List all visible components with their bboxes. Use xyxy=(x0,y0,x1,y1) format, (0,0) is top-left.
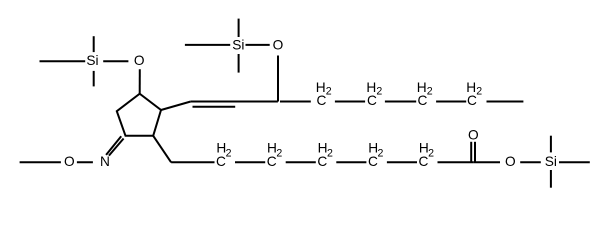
bond Si2-O3 xyxy=(246,44,270,46)
TMS1 methyl left xyxy=(40,60,86,62)
svg-text:Si: Si xyxy=(545,154,557,169)
C=N double bond line2 xyxy=(109,139,124,156)
svg-text:2: 2 xyxy=(378,147,384,159)
TMS2 methyl left xyxy=(185,44,230,46)
svg-text:C: C xyxy=(216,154,226,169)
svg-text:C: C xyxy=(368,154,378,169)
TMS2 methyl bottom xyxy=(238,54,240,73)
TMS2 methyl top xyxy=(238,19,240,37)
vinyl main line + chain to C15 xyxy=(191,101,278,103)
svg-text:C: C xyxy=(419,154,429,169)
svg-text:H: H xyxy=(366,80,376,95)
bond N-O2 xyxy=(77,161,93,163)
bond C17-C18 xyxy=(385,101,416,103)
svg-text:2: 2 xyxy=(476,86,482,98)
svg-text:Si: Si xyxy=(86,53,98,68)
TMS3 methyl top xyxy=(550,136,552,153)
svg-text:2: 2 xyxy=(276,147,282,159)
svg-text:2: 2 xyxy=(427,86,433,98)
bond C7-C6 xyxy=(171,161,214,163)
svg-text:2: 2 xyxy=(326,86,332,98)
svg-text:O: O xyxy=(468,127,479,142)
svg-text:Si: Si xyxy=(232,37,244,52)
TMS3 methyl bottom xyxy=(550,170,552,188)
bond C18-C19 xyxy=(436,101,466,103)
svg-text:H: H xyxy=(466,80,476,95)
bond C15-C16 xyxy=(280,101,311,103)
TMS3 methyl right xyxy=(559,161,590,163)
bond O5-Si3 xyxy=(520,161,541,163)
bond C3-C2 xyxy=(387,161,417,163)
bond C16-C17 xyxy=(335,101,365,103)
bond Si1-O1 xyxy=(103,60,128,62)
cyclopentane ring xyxy=(117,94,161,136)
svg-text:H: H xyxy=(417,80,427,95)
vinyl double bond inner line xyxy=(193,106,236,108)
bond C5-C4 xyxy=(286,161,316,163)
svg-text:O: O xyxy=(505,154,516,169)
svg-text:2: 2 xyxy=(327,147,333,159)
bond C4-C3 xyxy=(336,161,366,163)
TMS1 methyl bottom xyxy=(93,71,95,87)
C20 terminal methyl xyxy=(487,101,524,103)
bond ring-vinyl xyxy=(161,102,191,111)
O2 methyl xyxy=(20,161,61,163)
svg-text:H: H xyxy=(316,80,326,95)
svg-text:O: O xyxy=(134,53,145,68)
TMS1 methyl top xyxy=(93,36,95,52)
svg-text:C: C xyxy=(317,154,327,169)
svg-text:O: O xyxy=(64,154,75,169)
bond C1-O5 xyxy=(473,161,500,163)
svg-text:2: 2 xyxy=(226,147,232,159)
bond C2-C1 xyxy=(438,161,474,163)
bond O1-ring xyxy=(139,69,141,93)
bond ring-C7 xyxy=(153,136,171,163)
svg-text:2: 2 xyxy=(376,86,382,98)
bond O3-C15 xyxy=(277,56,279,102)
svg-text:C: C xyxy=(267,154,277,169)
svg-text:2: 2 xyxy=(428,147,434,159)
C=N double bond line1 xyxy=(106,136,121,155)
svg-text:N: N xyxy=(100,154,110,169)
svg-text:O: O xyxy=(273,37,284,52)
C=O double bond line1 xyxy=(470,142,472,162)
C=O double bond line2 xyxy=(474,142,476,162)
bond C6-C5 xyxy=(235,161,265,163)
